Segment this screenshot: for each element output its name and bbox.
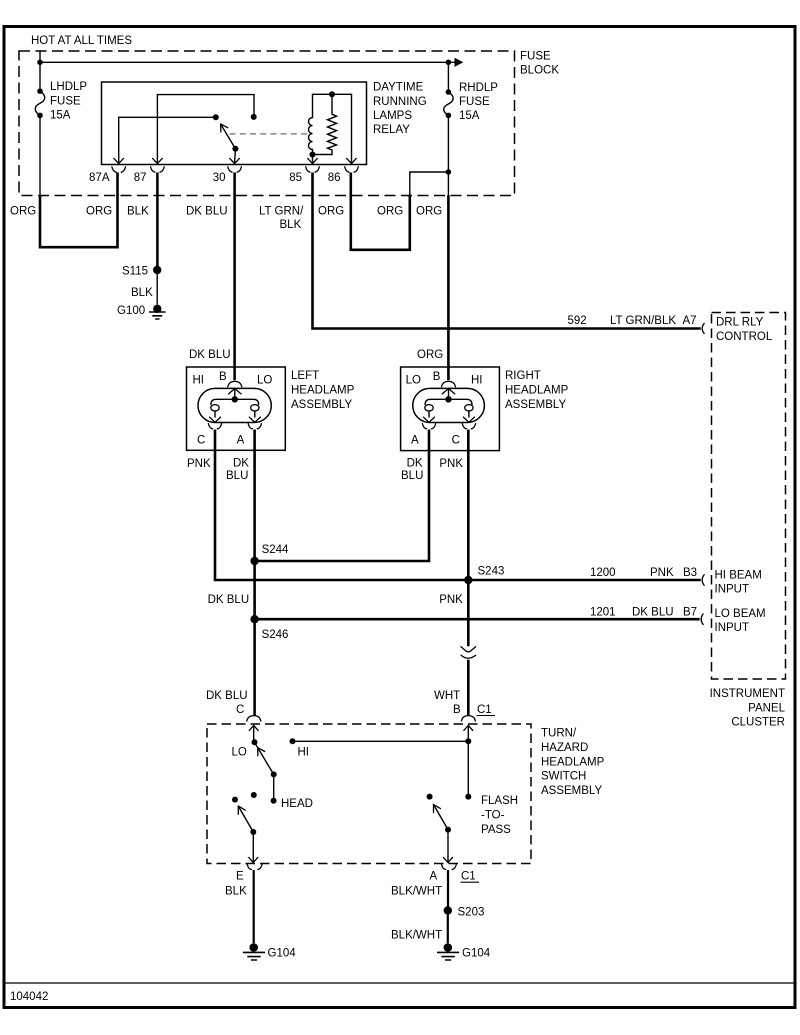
splice S115 — [122, 266, 161, 278]
svg-text:SWITCH: SWITCH — [541, 771, 586, 783]
bus wire hot at all times — [37, 51, 463, 67]
right headlamp terminal B — [406, 371, 483, 387]
svg-text:A: A — [237, 435, 245, 447]
switch terminal B — [453, 704, 495, 741]
svg-text:ASSEMBLY: ASSEMBLY — [541, 785, 602, 797]
relay internal wire from terminal 87A to NC contact — [119, 114, 219, 120]
svg-text:LT GRN/BLK: LT GRN/BLK — [610, 315, 676, 327]
svg-text:ASSEMBLY: ASSEMBLY — [291, 399, 352, 411]
left headlamp bulb — [198, 388, 271, 422]
svg-text:INPUT: INPUT — [715, 622, 750, 634]
svg-text:E: E — [236, 871, 244, 883]
svg-text:HAZARD: HAZARD — [541, 742, 588, 754]
wire DK BLU from relay 30 to left headlamp B — [186, 173, 235, 381]
svg-text:DK BLU: DK BLU — [632, 606, 674, 618]
svg-text:ORG: ORG — [10, 206, 36, 218]
svg-text:A: A — [430, 871, 438, 883]
svg-text:BLK: BLK — [127, 206, 149, 218]
wire PNK from right headlamp C to S243 — [467, 430, 470, 581]
relay mechanical link (dashed) — [230, 133, 309, 135]
svg-text:DAYTIME: DAYTIME — [373, 82, 424, 94]
svg-text:DK: DK — [407, 458, 423, 470]
relay terminal 87 — [134, 95, 164, 184]
fuse block (dashed box) — [19, 51, 559, 196]
svg-text:PNK: PNK — [439, 594, 463, 606]
svg-text:DK BLU: DK BLU — [186, 206, 228, 218]
wire BLK/WHT from switch A to S203 — [391, 870, 448, 907]
svg-text:LEFT: LEFT — [291, 370, 319, 382]
wire LT GRN/BLK circuit 592 from relay 85 to DRL RLY CONTROL — [259, 173, 705, 334]
svg-text:CLUSTER: CLUSTER — [731, 717, 785, 729]
svg-text:B: B — [453, 704, 461, 716]
splice S243 — [464, 565, 504, 584]
svg-text:BLOCK: BLOCK — [520, 65, 559, 77]
svg-text:A: A — [411, 435, 419, 447]
svg-text:HI: HI — [471, 375, 483, 387]
switch terminal A — [430, 864, 480, 882]
svg-text:BLK: BLK — [280, 219, 302, 231]
wire PNK from S243 to in-line connector — [439, 580, 468, 646]
relay switch arm — [221, 124, 239, 152]
wire BLK from S115 to G100 — [131, 272, 157, 304]
switch terminal C — [236, 704, 261, 742]
relay internal wire from terminal 87 to NO contact — [157, 95, 256, 120]
svg-text:30: 30 — [213, 172, 226, 184]
headlamp switch lower pole and arm — [232, 792, 258, 863]
ground G104 (right) — [437, 943, 491, 960]
svg-text:RIGHT: RIGHT — [505, 370, 541, 382]
wire DK BLU from left headlamp A to switch terminal C — [206, 430, 255, 717]
svg-text:LO: LO — [257, 375, 272, 387]
svg-text:DK BLU: DK BLU — [206, 690, 248, 702]
wire DK BLU circuit 1201 from S246 to LO BEAM INPUT — [255, 606, 704, 625]
svg-text:LO BEAM: LO BEAM — [715, 608, 766, 620]
svg-text:ORG: ORG — [318, 206, 344, 218]
svg-text:B: B — [219, 371, 227, 383]
DRL RLY CONTROL / instrument panel cluster (dashed box) — [712, 313, 786, 680]
svg-text:PANEL: PANEL — [748, 702, 785, 714]
svg-text:LO: LO — [232, 746, 247, 758]
relay terminal 86 — [328, 94, 359, 184]
fuse LHDLP 15A — [35, 62, 87, 195]
svg-text:HI: HI — [193, 375, 205, 387]
svg-text:INPUT: INPUT — [715, 583, 750, 595]
svg-text:INSTRUMENT: INSTRUMENT — [710, 688, 785, 700]
svg-text:BLU: BLU — [401, 470, 423, 482]
svg-text:87A: 87A — [89, 172, 110, 184]
svg-text:ORG: ORG — [377, 206, 403, 218]
splice S203 — [444, 906, 485, 918]
svg-text:HOT AT ALL TIMES: HOT AT ALL TIMES — [31, 35, 132, 47]
svg-text:FUSE: FUSE — [459, 96, 490, 108]
svg-text:C: C — [452, 435, 460, 447]
switch terminal E — [236, 864, 262, 882]
svg-text:B3: B3 — [683, 567, 697, 579]
svg-text:FUSE: FUSE — [50, 96, 81, 108]
left headlamp terminal B — [193, 371, 273, 387]
svg-text:DK: DK — [233, 458, 249, 470]
svg-text:CONTROL: CONTROL — [716, 331, 773, 343]
svg-text:ORG: ORG — [417, 349, 443, 361]
left headlamp assembly (box) — [187, 367, 355, 450]
label INSTRUMENT PANEL CLUSTER — [710, 688, 786, 729]
relay terminal 85 — [289, 155, 319, 185]
wire ORG from LHDLP fuse to relay 87A — [10, 173, 118, 248]
wire PNK circuit 1200 from S243 to HI BEAM INPUT — [468, 567, 704, 586]
svg-text:RHDLP: RHDLP — [459, 82, 498, 94]
svg-text:TURN/: TURN/ — [541, 728, 577, 740]
svg-text:85: 85 — [289, 172, 302, 184]
svg-text:87: 87 — [134, 172, 147, 184]
svg-text:S203: S203 — [458, 907, 485, 919]
svg-text:S243: S243 — [478, 565, 505, 577]
svg-text:S244: S244 — [262, 544, 289, 556]
svg-text:B: B — [433, 371, 441, 383]
ground G104 (left) — [243, 943, 296, 960]
relay U1 DAYTIME RUNNING LAMPS RELAY (box) — [102, 82, 427, 165]
svg-text:15A: 15A — [50, 110, 71, 122]
svg-text:DK BLU: DK BLU — [208, 594, 250, 606]
svg-text:A7: A7 — [683, 315, 697, 327]
svg-text:-TO-: -TO- — [481, 809, 505, 821]
svg-text:FUSE: FUSE — [520, 51, 551, 63]
svg-text:DK BLU: DK BLU — [189, 349, 231, 361]
svg-text:LO: LO — [406, 375, 421, 387]
svg-text:HEADLAMP: HEADLAMP — [505, 385, 569, 397]
svg-text:S246: S246 — [262, 629, 289, 641]
svg-text:HEADLAMP: HEADLAMP — [541, 756, 605, 768]
svg-text:LHDLP: LHDLP — [50, 81, 87, 93]
svg-text:C: C — [236, 704, 244, 716]
wire ORG from RHDLP fuse to right headlamp B — [416, 195, 448, 380]
svg-text:BLK/WHT: BLK/WHT — [391, 886, 442, 898]
svg-text:RUNNING: RUNNING — [373, 96, 427, 108]
left headlamp terminals C and A — [197, 424, 261, 447]
svg-text:C1: C1 — [461, 871, 476, 883]
svg-text:1201: 1201 — [590, 606, 616, 618]
svg-text:HEADLAMP: HEADLAMP — [291, 385, 355, 397]
svg-text:BLU: BLU — [226, 470, 248, 482]
svg-text:BLK/WHT: BLK/WHT — [391, 929, 442, 941]
right headlamp bulb — [413, 388, 485, 422]
svg-text:104042: 104042 — [10, 991, 48, 1003]
pin label LO BEAM INPUT — [715, 608, 766, 634]
relay terminal 87A — [89, 117, 125, 184]
relay coil suppression resistor — [316, 91, 337, 154]
svg-text:LT GRN/: LT GRN/ — [259, 206, 304, 218]
svg-text:HEAD: HEAD — [281, 798, 313, 810]
svg-text:DRL RLY: DRL RLY — [716, 317, 764, 329]
relay coil — [309, 94, 352, 157]
right headlamp assembly (box) — [401, 367, 569, 451]
svg-text:PNK: PNK — [439, 458, 463, 470]
svg-text:BLK: BLK — [131, 287, 153, 299]
svg-text:FLASH: FLASH — [481, 795, 518, 807]
svg-text:G100: G100 — [117, 305, 145, 317]
headlamp switch contacts LO / HI / HEAD — [232, 738, 469, 810]
svg-text:1200: 1200 — [590, 567, 616, 579]
svg-text:RELAY: RELAY — [373, 124, 410, 136]
right headlamp terminals A and C — [411, 424, 476, 447]
svg-text:PASS: PASS — [481, 824, 511, 836]
svg-text:C: C — [197, 435, 205, 447]
svg-text:HI: HI — [298, 746, 310, 758]
svg-text:ASSEMBLY: ASSEMBLY — [505, 399, 566, 411]
svg-text:C1: C1 — [477, 704, 492, 716]
svg-text:BLK: BLK — [225, 886, 247, 898]
svg-text:WHT: WHT — [434, 690, 460, 702]
svg-text:G104: G104 — [462, 947, 491, 959]
svg-text:HI BEAM: HI BEAM — [715, 570, 762, 582]
wire BLK from switch E to G104 — [225, 870, 254, 943]
svg-text:PNK: PNK — [650, 567, 674, 579]
splice S246 — [250, 615, 288, 641]
flash-to-pass switch — [427, 738, 518, 862]
ground G100 — [117, 305, 166, 319]
in-line connector on PNK/WHT wire — [461, 647, 476, 659]
svg-text:86: 86 — [328, 172, 341, 184]
wire DK BLU from right headlamp A to S244 — [255, 430, 429, 562]
svg-text:PNK: PNK — [187, 458, 211, 470]
fuse RHDLP 15A — [410, 62, 499, 195]
svg-text:B7: B7 — [683, 606, 697, 618]
svg-text:G104: G104 — [268, 947, 297, 959]
svg-text:ORG: ORG — [416, 206, 442, 218]
wire WHT from in-line connector to switch terminal B — [434, 660, 468, 716]
splice S244 — [250, 544, 289, 565]
svg-text:S115: S115 — [122, 266, 148, 278]
relay terminal 30 — [213, 149, 242, 184]
svg-text:ORG: ORG — [86, 206, 112, 218]
pin label HI BEAM INPUT — [715, 570, 762, 596]
turn/hazard headlamp switch assembly (dashed box) — [207, 724, 605, 864]
svg-text:592: 592 — [568, 315, 587, 327]
wire BLK/WHT from S203 to G104 — [391, 915, 448, 944]
wire ORG from relay 86 to RHDLP fuse node — [318, 173, 410, 250]
svg-text:15A: 15A — [459, 110, 480, 122]
svg-text:LAMPS: LAMPS — [373, 110, 412, 122]
wire PNK from left headlamp C to S243 — [187, 430, 467, 581]
wire BLK from relay 87 to S115 — [127, 173, 157, 267]
